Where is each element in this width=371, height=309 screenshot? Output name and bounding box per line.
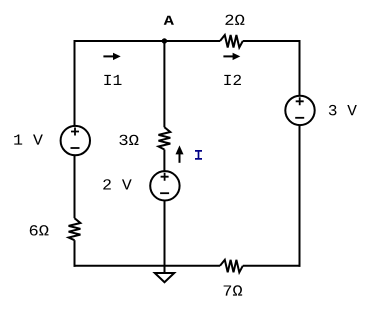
wire middle lower (V2 to ground) (164, 200, 166, 273)
label 7-ohm value (224, 285, 243, 295)
wire bottom right segment (243, 265, 301, 267)
V3 plus sign (296, 97, 304, 105)
V2 minus sign (160, 192, 169, 194)
ground symbol (155, 273, 174, 282)
current arrow I2 (223, 53, 240, 60)
wire left lower (74, 240, 76, 267)
voltage source V1 circle (61, 126, 90, 155)
wire top left (node to 2-ohm resistor) (75, 40, 221, 42)
label 3-ohm value (119, 135, 138, 145)
label node A (164, 16, 174, 25)
voltage source V3 circle (285, 96, 314, 125)
label I1 (104, 75, 121, 85)
label 1 V (14, 134, 43, 144)
label 2 V (103, 179, 131, 189)
node A junction dot (162, 38, 167, 43)
label 2-ohm value (225, 15, 244, 25)
resistor 6-ohm (left) (69, 218, 81, 240)
label I2 (224, 75, 241, 85)
wire bottom left segment (74, 265, 221, 267)
voltage source V2 circle (150, 171, 179, 200)
wire right lower (299, 125, 301, 267)
label 6-ohm value (30, 225, 49, 235)
wire middle (3-ohm to V2) (163, 150, 165, 172)
wire middle upper (node A to 3-ohm) (163, 41, 165, 127)
V1 plus sign (71, 128, 79, 136)
wire left middle (74, 155, 76, 218)
current arrow I1 (103, 53, 120, 60)
label I (blue) (195, 151, 202, 159)
V3 minus sign (295, 117, 304, 119)
resistor 2-ohm (top) (220, 35, 243, 48)
current arrow I (middle, pointing up) (176, 145, 184, 162)
wire left upper (74, 40, 76, 126)
wire top right segment (243, 40, 300, 42)
V1 minus sign (71, 147, 80, 149)
label 3 V (329, 105, 357, 115)
resistor 3-ohm (middle) (159, 127, 171, 149)
V2 plus sign (161, 173, 169, 181)
resistor 7-ohm (bottom) (220, 260, 243, 273)
wire right upper (299, 40, 301, 96)
